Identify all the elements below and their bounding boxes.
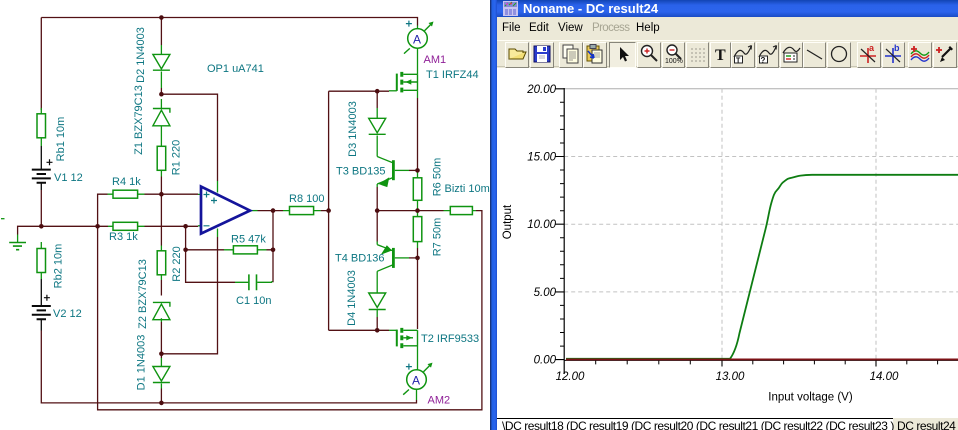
node output rail left xyxy=(375,208,380,213)
wire T3 base xyxy=(409,169,418,171)
mosfet T1 xyxy=(397,72,418,93)
wire green AM2 leads xyxy=(417,347,418,401)
svg-text:D2 1N4003: D2 1N4003 xyxy=(135,27,147,83)
wire gate column xyxy=(328,91,330,330)
curve maroon zero xyxy=(566,358,958,360)
node output rail / R6 R7 xyxy=(415,208,420,213)
wire left column V1 xyxy=(40,18,42,227)
svg-text:R2 220: R2 220 xyxy=(171,246,183,281)
wire green leads R4 xyxy=(108,193,145,195)
wire gate top xyxy=(329,90,389,92)
wire R5 leads xyxy=(186,249,273,251)
wire green C1 leads xyxy=(235,281,272,282)
node R8 output / gate column xyxy=(326,208,331,213)
wire T1 source down xyxy=(417,98,419,170)
wire T3 emitter down xyxy=(376,187,378,211)
svg-text:D3 1N4003: D3 1N4003 xyxy=(347,101,359,157)
wire green R2 leads xyxy=(160,246,162,281)
wire R4 branch xyxy=(98,194,198,226)
wire opamp V+ supply xyxy=(161,88,217,181)
wire green left edge fragment xyxy=(1,218,5,220)
zener Z1 xyxy=(153,109,170,126)
svg-text:?: ? xyxy=(761,56,766,65)
wire opamp V- supply xyxy=(161,237,217,354)
svg-text:15.00: 15.00 xyxy=(527,152,556,164)
wire R7 bottom xyxy=(417,248,419,258)
svg-text:Input voltage (V): Input voltage (V) xyxy=(768,392,853,404)
resistor Rb2 xyxy=(37,249,46,273)
wire R2 to Z2 xyxy=(160,280,162,296)
resistor R2 xyxy=(157,251,166,275)
wire D3 drop xyxy=(376,91,378,108)
wire T4 base xyxy=(409,257,418,259)
node gate top / D3 xyxy=(375,89,380,94)
wire green D3 leads xyxy=(376,108,378,157)
svg-text:T: T xyxy=(715,47,726,64)
wire Bizti loop xyxy=(98,211,482,410)
wire ground stub xyxy=(18,226,42,234)
wire R1-R2 column xyxy=(160,177,162,246)
svg-text:R3 1k: R3 1k xyxy=(109,231,138,243)
diode D3 xyxy=(369,118,386,134)
wire green leads Rb1 xyxy=(40,108,42,146)
resistor R6 xyxy=(413,178,422,201)
svg-text:a: a xyxy=(869,43,875,53)
svg-text:OP1 uA741: OP1 uA741 xyxy=(207,63,264,75)
svg-text:T2 IRF9533: T2 IRF9533 xyxy=(421,333,479,345)
svg-text:Rb2 10m: Rb2 10m xyxy=(53,244,65,289)
svg-text:b: b xyxy=(894,43,900,53)
transistor T3 xyxy=(380,160,394,186)
wire green R8 leads xyxy=(283,210,321,212)
node R5 left xyxy=(183,248,188,253)
wire green D1 leads xyxy=(160,358,162,389)
wire green R1 bottom lead xyxy=(160,170,162,176)
wire green opamp supply pins xyxy=(217,181,219,237)
node D1 bottom rail xyxy=(159,401,164,406)
wire green leads Rb2 xyxy=(40,242,42,279)
svg-text:Z1 BZX79C13: Z1 BZX79C13 xyxy=(133,85,145,155)
svg-text:R8 100: R8 100 xyxy=(289,193,324,205)
gridline x=14 xyxy=(875,89,877,360)
node ground rail / R3 xyxy=(95,224,100,229)
wire gate bottom xyxy=(329,329,389,331)
resistor Bizti xyxy=(450,207,472,215)
wire green T3 collector xyxy=(377,157,393,164)
gridline y=15 xyxy=(564,156,958,158)
wire green AM1 leads xyxy=(417,26,419,99)
svg-text:V2 12: V2 12 xyxy=(53,308,82,320)
x axis xyxy=(564,359,958,361)
wire D2 top xyxy=(160,18,162,46)
svg-text:A: A xyxy=(413,33,421,47)
resistor R1 xyxy=(157,146,166,170)
op-amp OP1 xyxy=(201,187,250,234)
wire output rail xyxy=(377,210,443,212)
svg-text:AM1: AM1 xyxy=(424,54,447,66)
wire inverting column xyxy=(186,226,235,282)
ground xyxy=(9,243,26,250)
wire green T4 emitter lead xyxy=(377,242,393,252)
node V1 / ground rail xyxy=(39,224,44,229)
svg-text:Rb1 10m: Rb1 10m xyxy=(55,117,67,162)
wire D4 bottom xyxy=(376,317,378,330)
wire green T3 base lead xyxy=(395,169,409,171)
svg-text:20.00: 20.00 xyxy=(526,84,556,96)
wire output column xyxy=(272,211,274,283)
node inverting input xyxy=(183,224,188,229)
node R5 right xyxy=(271,248,276,253)
battery V1 xyxy=(32,146,53,190)
gridline y=5 xyxy=(564,291,958,293)
wire green leads R3 xyxy=(108,225,145,227)
resistor R5 xyxy=(233,246,257,254)
wire Z2 to D1 node xyxy=(160,322,162,358)
svg-text:R5 47k: R5 47k xyxy=(231,234,266,246)
node D2 / Z1 / V+ xyxy=(159,92,164,97)
resistor R3 xyxy=(113,222,138,230)
wire T4 emitter up xyxy=(376,211,378,242)
svg-text:Z2 BZX79C13: Z2 BZX79C13 xyxy=(137,259,149,329)
wire T2 drain column xyxy=(417,258,419,329)
wire green R7 leads xyxy=(417,211,419,248)
x major ticks xyxy=(722,360,876,366)
svg-text:T1 IRFZ44: T1 IRFZ44 xyxy=(426,69,479,81)
node opamp output xyxy=(271,208,276,213)
node R7 / T4 base / T2 xyxy=(415,256,420,261)
svg-text:100%: 100% xyxy=(665,58,683,65)
resistor R7 xyxy=(413,217,422,242)
svg-text:V1 12: V1 12 xyxy=(54,172,83,184)
node noninverting input / R1 R2 xyxy=(159,192,164,197)
wire green T1 gate lead xyxy=(389,90,397,92)
wire green D4 leads xyxy=(376,310,378,318)
wire green Z2 bottom lead xyxy=(160,318,162,322)
resistor R4 xyxy=(113,190,138,198)
svg-text:5.00: 5.00 xyxy=(534,287,557,299)
svg-text:T3 BD135: T3 BD135 xyxy=(336,166,386,178)
wire green T2 gate lead xyxy=(389,329,397,331)
svg-text:0.00: 0.00 xyxy=(534,355,557,367)
y minor ticks xyxy=(560,102,564,346)
node top rail / D2 xyxy=(159,15,164,20)
wire green T3 emitter lead xyxy=(377,177,393,187)
y major ticks xyxy=(555,89,564,360)
mosfet T2 xyxy=(397,328,418,348)
diode D2 xyxy=(153,54,170,70)
diode D1 xyxy=(153,367,170,383)
wire green opamp inputs xyxy=(198,194,201,225)
gridline x=13 xyxy=(721,89,723,360)
wire D1 to bottom rail xyxy=(160,389,162,403)
wire green T4 base lead xyxy=(395,257,409,259)
wire bottom rail V2 loop xyxy=(41,331,416,403)
svg-text:13.00: 13.00 xyxy=(716,371,745,383)
svg-text:10.00: 10.00 xyxy=(527,219,556,231)
wire green ground lead xyxy=(17,235,19,243)
svg-text:T4 BD136: T4 BD136 xyxy=(335,253,385,265)
wire top rail xyxy=(41,18,417,26)
wire green Z1 leads xyxy=(160,99,162,146)
capacitor C1 xyxy=(249,274,257,290)
svg-text:14.00: 14.00 xyxy=(870,371,899,383)
resistor R8 xyxy=(290,207,314,215)
svg-text:R6 50m: R6 50m xyxy=(432,158,444,197)
svg-text:T: T xyxy=(736,58,741,65)
svg-text:12.00: 12.00 xyxy=(556,371,585,383)
gridline y=10 xyxy=(564,223,958,225)
svg-text:R1 220: R1 220 xyxy=(171,140,183,175)
wire green T4 collector lead xyxy=(377,265,393,293)
wire ground rail xyxy=(41,225,198,227)
svg-text:D1 1N4003: D1 1N4003 xyxy=(136,335,148,391)
node Z2 D1 / V- supply xyxy=(159,352,164,357)
node gate bottom / D4 xyxy=(375,328,380,333)
zener Z2 xyxy=(153,302,170,319)
resistor Rb1 xyxy=(37,114,46,138)
svg-text:AM2: AM2 xyxy=(428,395,451,407)
svg-text:C1 10n: C1 10n xyxy=(236,295,271,307)
ammeter AM1 xyxy=(404,21,434,54)
y axis xyxy=(563,88,565,374)
x minor ticks xyxy=(596,360,938,364)
curve green output xyxy=(566,175,958,359)
diode D4 xyxy=(369,293,386,310)
wire green opamp output lead xyxy=(250,210,258,212)
node T1 source / T3 base / R6 xyxy=(415,168,420,173)
svg-text:D4 1N4003: D4 1N4003 xyxy=(346,270,358,326)
svg-text:R7 50m: R7 50m xyxy=(432,218,444,257)
gridline y=20 xyxy=(564,88,958,90)
svg-text:Bizti 10m: Bizti 10m xyxy=(445,183,490,195)
wire green Bizti leads xyxy=(444,210,477,212)
svg-text:R4 1k: R4 1k xyxy=(112,176,141,188)
transistor T4 xyxy=(382,246,393,268)
wire green R6 leads xyxy=(417,170,419,210)
battery V2 xyxy=(32,279,51,331)
wire green D2 leads xyxy=(160,45,162,88)
svg-text:Output: Output xyxy=(502,204,514,239)
wire opamp output xyxy=(258,210,329,212)
wire green R5 leads xyxy=(224,249,267,251)
ammeter AM2 xyxy=(403,363,432,395)
svg-text:A: A xyxy=(412,374,420,388)
